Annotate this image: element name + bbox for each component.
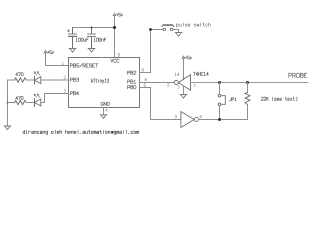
LED D2 bbox=[34, 99, 36, 107]
pin number 1 gate bbox=[194, 84, 195, 87]
ground below IC bbox=[100, 115, 107, 119]
wire PB2 to switch bbox=[140, 30, 164, 73]
label 74HC14 bbox=[193, 72, 208, 75]
wire 22K bottom lead bbox=[247, 105, 249, 120]
wire gate2 output to 22K bbox=[199, 119, 248, 121]
capacitor C1 100uF bbox=[72, 28, 74, 35]
IC U1 ATtiny13 box bbox=[69, 58, 140, 108]
capacitor C2 100nF bbox=[91, 28, 93, 35]
label PB1 bbox=[128, 80, 136, 83]
junction 22K top bbox=[246, 81, 249, 84]
wire rail to R2 bbox=[8, 102, 15, 104]
label +5v gate bbox=[185, 56, 191, 59]
wire gate GND pin 7 bbox=[183, 86, 185, 94]
wire rail to R1 bbox=[8, 79, 15, 81]
wire switch to ground bbox=[173, 30, 179, 33]
label PB3 bbox=[70, 78, 78, 81]
wire JP1 bottom lead bbox=[219, 106, 221, 120]
LED D1 bbox=[34, 76, 36, 84]
label PROBE bbox=[289, 73, 307, 77]
label +5v reset bbox=[47, 51, 53, 54]
pin number 3 gate bbox=[175, 115, 177, 118]
wire probe rail bbox=[191, 82, 309, 84]
wire R2 to D2 bbox=[26, 102, 34, 104]
wire D1 to pin 2 bbox=[41, 79, 69, 81]
wire +5V to gate pin 14 bbox=[183, 59, 185, 79]
pin number 4 gate bbox=[200, 115, 202, 118]
wire left ground rail bbox=[7, 80, 9, 126]
wire R1 to D1 bbox=[26, 79, 34, 81]
wire D2 to pin 3 bbox=[41, 94, 69, 103]
ground below C2 bbox=[88, 48, 95, 52]
junction +5V rail bbox=[113, 26, 116, 29]
label 22K (see text) bbox=[261, 97, 297, 101]
wire 22K top lead bbox=[247, 83, 249, 93]
supply +5V gate bbox=[182, 56, 185, 59]
footer text bbox=[23, 130, 139, 135]
ground left rail bbox=[4, 126, 11, 130]
label 100uF bbox=[76, 38, 89, 41]
label ATtiny13 bbox=[91, 79, 109, 84]
wire PB1 to gate1 output bbox=[140, 82, 175, 84]
pin number 2 bbox=[64, 76, 66, 79]
ground at switch bbox=[175, 33, 182, 37]
inverter U2B 74HC14 bbox=[181, 112, 194, 128]
pin number 5 bbox=[144, 84, 146, 87]
wire +5V down to VCC pin 8 bbox=[114, 17, 116, 58]
pin number 3 bbox=[64, 90, 66, 93]
pin number 6 bbox=[145, 78, 147, 81]
wire GND pin 4 bbox=[103, 108, 105, 115]
label VCC bbox=[111, 59, 119, 62]
resistor R3 22K bbox=[245, 92, 250, 104]
label PB5/RESET bbox=[70, 64, 98, 67]
label pulse switch bbox=[176, 23, 210, 27]
jumper JP1 bbox=[218, 94, 221, 97]
pin number 4 bbox=[106, 109, 108, 112]
ground at gate bbox=[180, 94, 187, 98]
inverter U2A 74HC14 bbox=[178, 75, 190, 91]
label 100nF bbox=[94, 38, 106, 41]
wire JP1 top lead bbox=[219, 83, 221, 95]
pin number 1 bbox=[62, 62, 63, 65]
label JP1 bbox=[229, 98, 236, 101]
junction left rail row B bbox=[7, 102, 9, 104]
resistor R2 bbox=[15, 100, 27, 104]
ground below C1 bbox=[69, 48, 76, 52]
junction C2 rail bbox=[91, 27, 93, 29]
wire +5V to pin 1 bbox=[46, 54, 69, 66]
junction JP1 bottom bbox=[218, 118, 221, 121]
junction switch corner bbox=[149, 28, 152, 31]
label 470 R1 bbox=[16, 73, 23, 76]
wire PB0 to gate2 input bbox=[140, 88, 181, 120]
pin number 2 gate bbox=[167, 83, 169, 86]
pin number 14 bbox=[175, 73, 179, 76]
resistor R1 bbox=[15, 78, 27, 82]
supply +5V top bbox=[113, 13, 116, 16]
label +5v top bbox=[116, 13, 122, 16]
label 470 R2 bbox=[16, 96, 23, 99]
supply +5V reset bbox=[44, 51, 47, 54]
label GND bbox=[101, 102, 109, 105]
pin number 8 bbox=[118, 53, 120, 56]
pushbutton S1 bbox=[163, 28, 166, 31]
label PB4 bbox=[70, 92, 78, 95]
label PB2 bbox=[128, 71, 136, 74]
pin number 9 bbox=[142, 69, 144, 72]
wire top rail to capacitors bbox=[73, 27, 115, 29]
label PB0 bbox=[128, 86, 136, 89]
pin number 7 gate bbox=[178, 86, 180, 89]
junction JP1 top bbox=[218, 81, 221, 84]
